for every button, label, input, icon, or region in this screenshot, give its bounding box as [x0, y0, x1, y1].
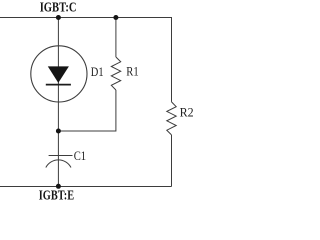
svg-text:IGBT:E: IGBT:E: [39, 188, 74, 202]
svg-text:R2: R2: [180, 105, 194, 119]
svg-text:D1: D1: [91, 65, 104, 79]
svg-text:R1: R1: [126, 65, 138, 79]
svg-text:IGBT:C: IGBT:C: [40, 0, 77, 14]
svg-text:C1: C1: [74, 149, 86, 163]
